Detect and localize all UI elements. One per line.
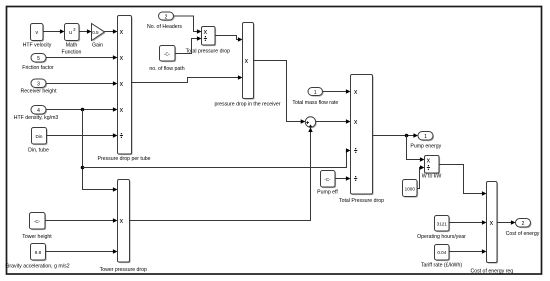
- wire branch down to W to kW port 1: [407, 136, 425, 162]
- sum block (add receiver and tower pressure drops): [305, 117, 317, 129]
- wire gain to product port 1: [105, 29, 118, 33]
- constant block 9.8 (Gravity acceleration): [5, 244, 69, 270]
- svg-text:Receiver height: Receiver height: [20, 88, 57, 94]
- constant block 1000: [403, 180, 419, 198]
- wire friction factor to product port 2: [46, 55, 118, 59]
- svg-text:x: x: [354, 89, 358, 96]
- svg-text:Operating hours/year: Operating hours/year: [417, 234, 466, 240]
- svg-text:Cost of energy: Cost of energy: [506, 231, 540, 237]
- svg-text:x: x: [490, 220, 494, 227]
- divide block Total pressure drop: [186, 27, 231, 55]
- wire gravity 9.8 to tower product port 3: [46, 249, 118, 253]
- svg-text:no. of flow path: no. of flow path: [149, 66, 184, 72]
- wire density branch to Total Pressure drop divide port 3: [83, 148, 351, 167]
- svg-text:x: x: [245, 58, 249, 65]
- svg-text:W to kW: W to kW: [422, 174, 442, 180]
- svg-text:Function: Function: [62, 49, 82, 55]
- wire tower height to tower product port 2: [45, 218, 118, 222]
- product block Cost of energy req: [470, 182, 513, 275]
- svg-text:Cost of energy req: Cost of energy req: [470, 268, 513, 274]
- svg-text:-C-: -C-: [34, 219, 41, 224]
- svg-text:x: x: [120, 29, 124, 36]
- svg-text:x: x: [120, 55, 124, 62]
- outport oval 1 (Pump energy): [410, 132, 441, 150]
- svg-text:x: x: [427, 157, 431, 164]
- constant block Din (Din, tube): [28, 128, 49, 154]
- svg-text:-C-: -C-: [324, 177, 331, 182]
- svg-text:1000: 1000: [405, 186, 416, 191]
- svg-text:0.5: 0.5: [92, 30, 99, 35]
- constant block -C- (Tower height): [22, 213, 52, 241]
- svg-text:Gain: Gain: [92, 42, 103, 48]
- svg-text:-C-: -C-: [164, 51, 171, 56]
- svg-text:Math: Math: [66, 42, 78, 48]
- wire v to u^2: [43, 29, 65, 33]
- svg-text:Total pressure drop: Total pressure drop: [186, 48, 231, 54]
- wire total mass flow rate to Total Pressure drop port 1: [323, 89, 351, 93]
- svg-text:5: 5: [37, 56, 40, 62]
- constant block v (HTF velocity): [23, 24, 52, 49]
- svg-text:Din, tube: Din, tube: [28, 147, 49, 153]
- svg-text:Total Pressure drop: Total Pressure drop: [339, 198, 384, 204]
- divide block W to kW: [422, 156, 442, 180]
- wire Din to product port 5: [46, 133, 118, 137]
- svg-text:4: 4: [37, 108, 40, 114]
- wire 0.04 to Cost of energy req port 3: [449, 249, 487, 253]
- wire Total Pressure drop out to Pump energy oval: [373, 133, 419, 137]
- svg-text:1: 1: [424, 134, 427, 140]
- wire receiver product out to sum: [254, 61, 306, 124]
- outport oval 2 (Cost of energy): [506, 219, 540, 237]
- svg-text:3: 3: [37, 81, 40, 87]
- svg-text:1: 1: [314, 90, 317, 96]
- wire Cost of energy req out to Cost of energy oval: [497, 220, 516, 224]
- svg-text:x: x: [354, 119, 358, 126]
- constant block 3121 (Operating hours/year): [417, 216, 466, 241]
- svg-text:HTF density, kg/m3: HTF density, kg/m3: [14, 115, 59, 121]
- outport oval 2 (No. of Headers): [147, 12, 182, 30]
- svg-text:Pump energy: Pump energy: [410, 144, 441, 150]
- product block pressure drop in the receiver: [214, 23, 280, 108]
- wire HTF density to product port 4: [46, 107, 118, 111]
- svg-text:Tariff rate (£/kWh): Tariff rate (£/kWh): [421, 263, 462, 269]
- wire HTF density branch down to tower product port 1: [81, 110, 118, 192]
- svg-text:3121: 3121: [437, 221, 448, 226]
- svg-text:Gravity acceleration, g m/s2: Gravity acceleration, g m/s2: [5, 263, 69, 269]
- inport oval 3 (Receiver height): [20, 79, 57, 94]
- svg-text:Pump eff: Pump eff: [317, 190, 338, 196]
- svg-text:Tower height: Tower height: [22, 234, 52, 240]
- svg-text:x: x: [120, 107, 124, 114]
- product block Tower pressure drop: [100, 180, 147, 273]
- wire pump eff to Total Pressure drop port 4: [335, 176, 351, 180]
- inport oval 5 (Friction factor): [22, 54, 54, 71]
- wire Pressure drop per tube out to receiver product port 2: [132, 75, 243, 82]
- inport oval 1 (Total mass flow rate): [292, 88, 338, 106]
- wire u^2 to gain: [79, 29, 92, 33]
- svg-text:No. of Headers: No. of Headers: [147, 24, 182, 30]
- svg-text:9.8: 9.8: [35, 250, 42, 255]
- svg-text:Tower pressure drop: Tower pressure drop: [100, 267, 147, 273]
- svg-text:Din: Din: [36, 134, 43, 139]
- gain block 0.5 (Gain): [92, 24, 106, 49]
- svg-text:x: x: [204, 29, 208, 36]
- svg-text:2: 2: [522, 221, 525, 227]
- wire oval 2 to Total pressure drop port 1: [174, 16, 202, 34]
- svg-text:Friction factor: Friction factor: [22, 65, 54, 71]
- svg-text:0.04: 0.04: [437, 250, 446, 255]
- wire 1000 to W to kW port 2: [417, 165, 425, 188]
- math function block u^2 (Math Function): [62, 24, 82, 56]
- inport oval 4 (HTF density): [14, 106, 59, 121]
- constant block 0.04 (Tariff rate): [421, 245, 462, 269]
- wire tower product out up to sum bottom: [130, 127, 313, 220]
- svg-text:pressure drop in the receiver: pressure drop in the receiver: [214, 101, 280, 107]
- wire 3121 to Cost of energy req port 2: [449, 220, 487, 224]
- svg-text:Total mass flow rate: Total mass flow rate: [292, 100, 338, 106]
- constant block -C- (Pump eff): [317, 171, 338, 196]
- svg-text:x: x: [120, 81, 124, 88]
- wire Total pressure drop to receiver product port 1: [215, 36, 243, 42]
- divide block Total Pressure drop: [339, 75, 384, 204]
- svg-text:Pressure drop per tube: Pressure drop per tube: [97, 156, 150, 162]
- svg-text:x: x: [120, 218, 124, 225]
- constant block -C- (no. of flow path): [149, 46, 184, 72]
- svg-text:u: u: [69, 30, 72, 36]
- wire receiver height to product port 3: [46, 81, 118, 85]
- svg-text:HTF velocity: HTF velocity: [23, 42, 52, 48]
- product block Pressure drop per tube: [97, 16, 150, 162]
- wire W to kW out to Cost of energy req port 1: [439, 165, 487, 196]
- wire sum out to Total Pressure drop port 2: [316, 119, 351, 123]
- wire no. of flow path to Total pressure drop port 2: [175, 36, 202, 53]
- svg-text:2: 2: [165, 14, 168, 20]
